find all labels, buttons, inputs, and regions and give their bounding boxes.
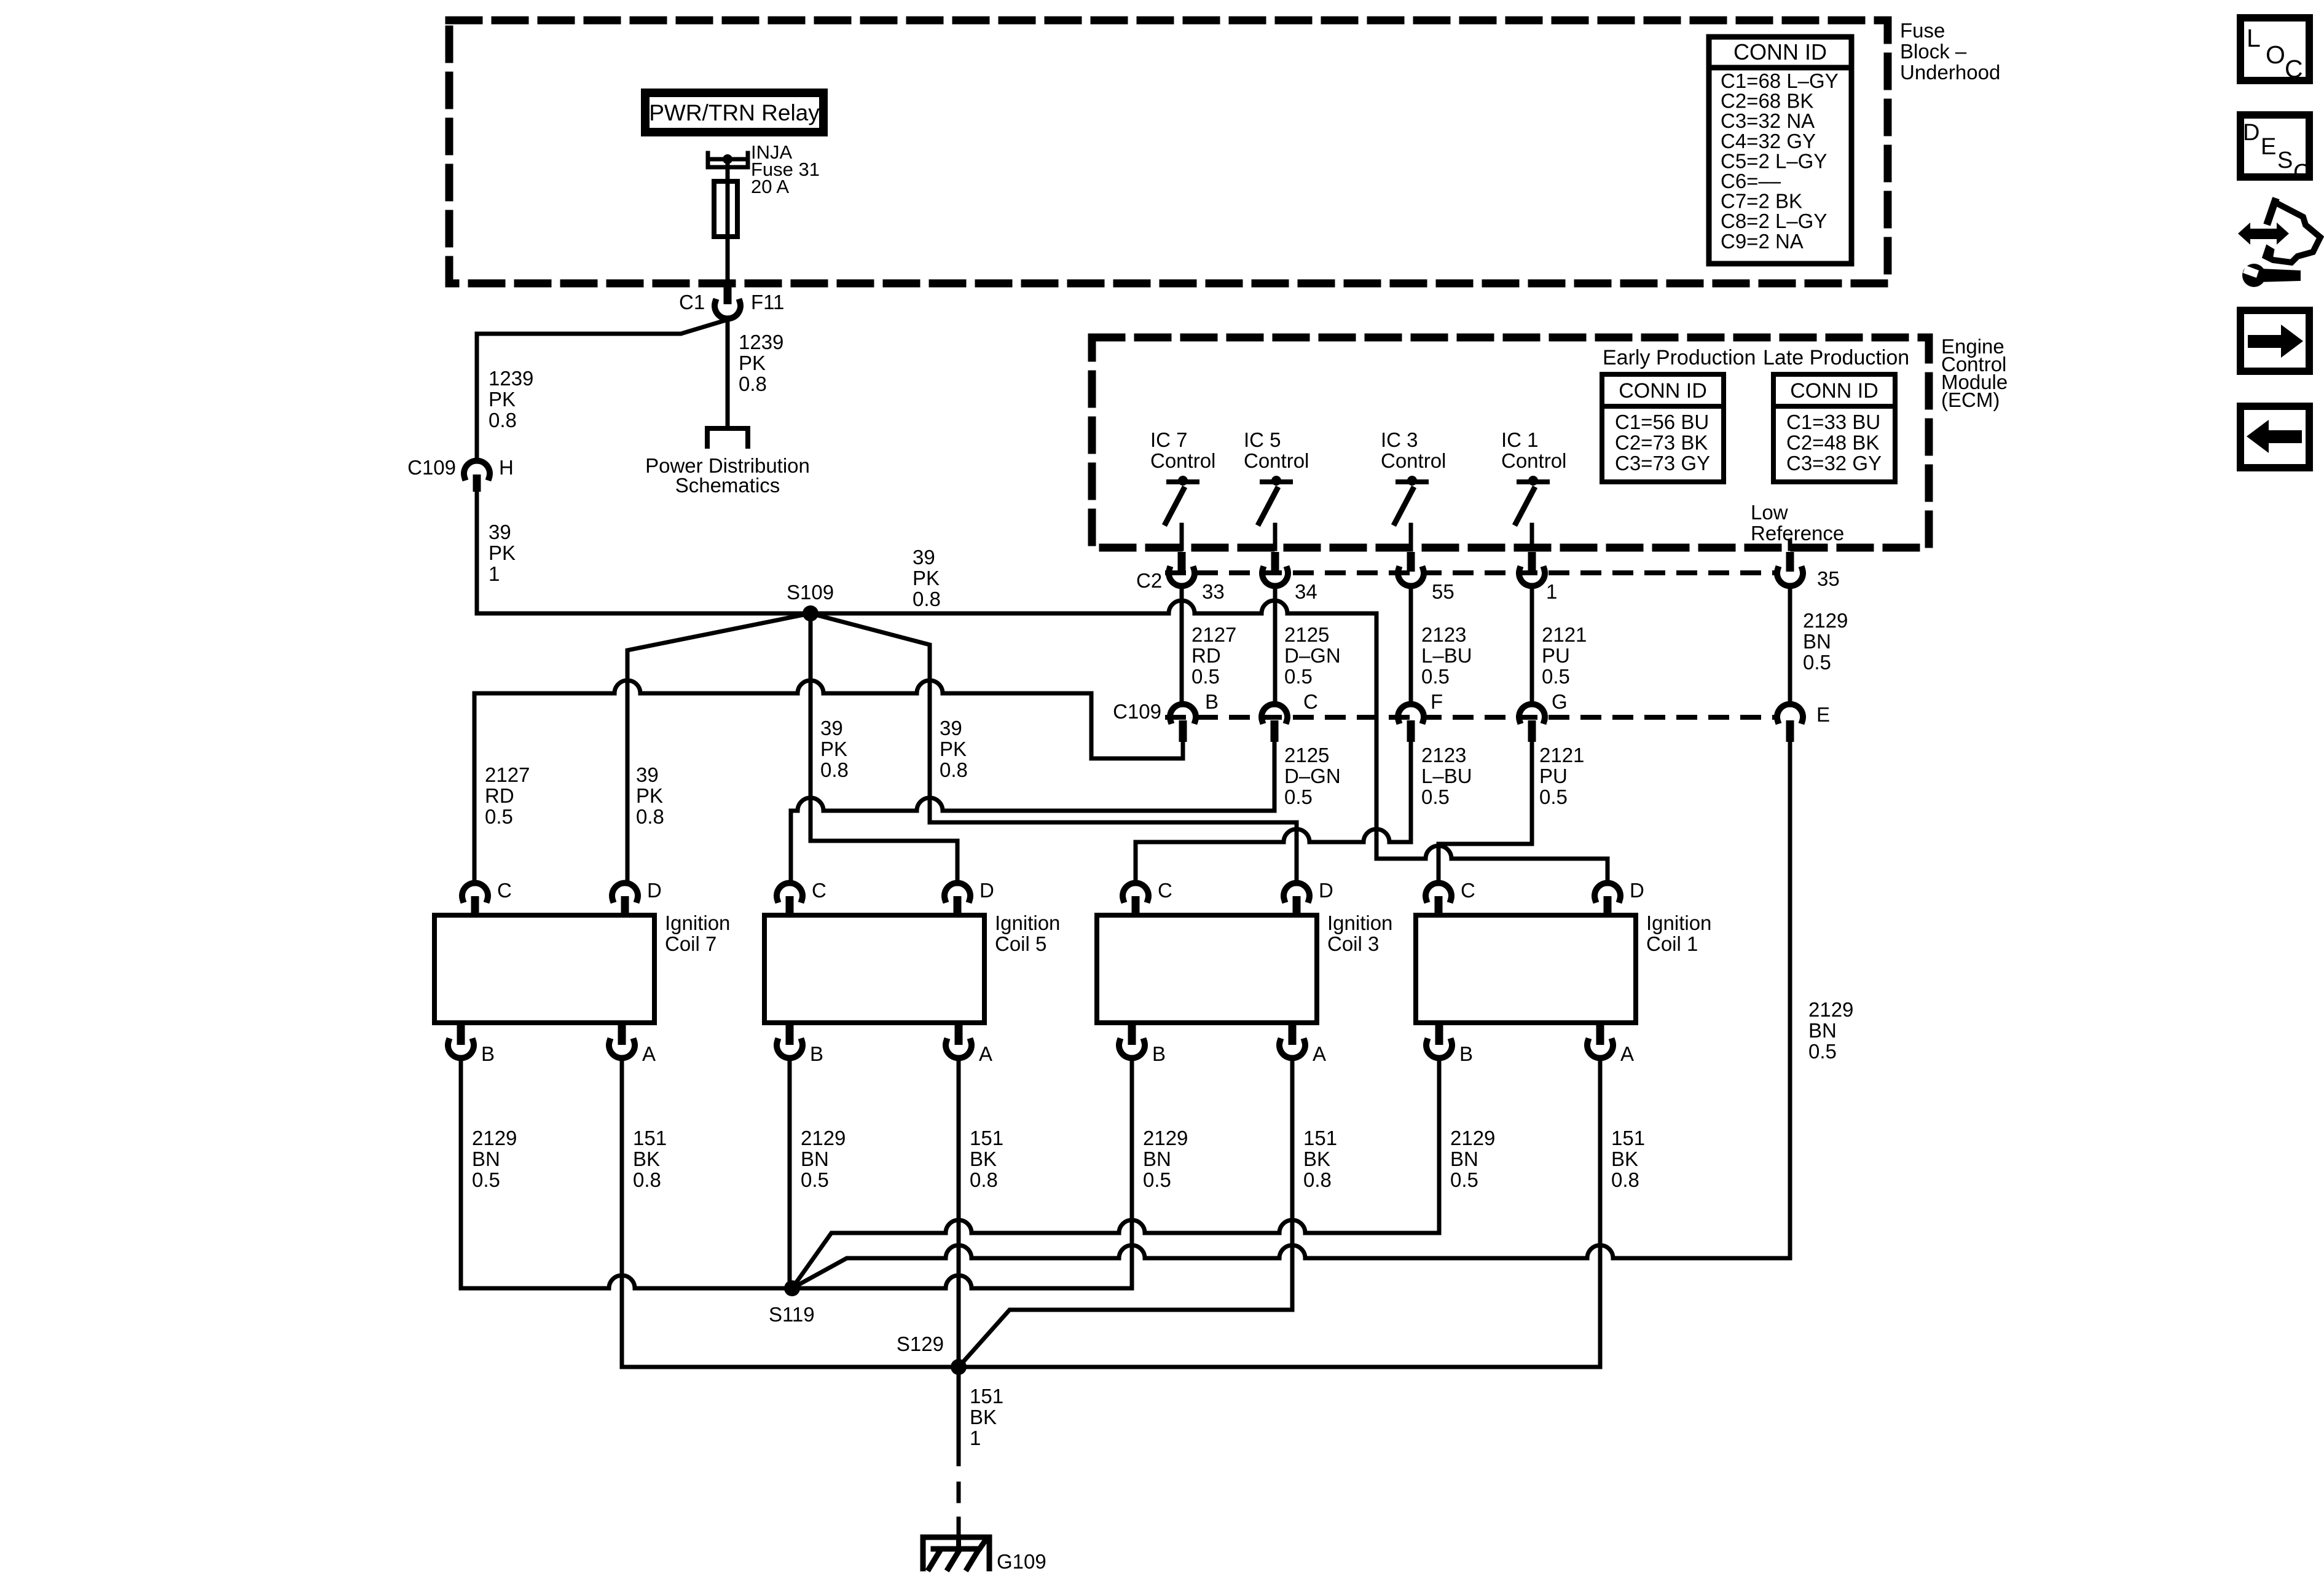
svg-text:C: C [497, 879, 512, 902]
wire 151 BK to ground [957, 1519, 961, 1537]
driver IC 7 switch arm [1166, 489, 1184, 523]
wire 1239 PK from C1 to power distribution [726, 318, 730, 425]
svg-text:B: B [810, 1042, 823, 1065]
connector C2 pin 33 [1178, 552, 1186, 572]
driver IC 3 contact dot [1407, 476, 1417, 486]
svg-text:Late Production: Late Production [1763, 346, 1909, 369]
splice S119 [784, 1280, 800, 1296]
connector C109 pin C [1262, 704, 1287, 721]
svg-text:35: 35 [1817, 567, 1840, 590]
svg-text:0.8: 0.8 [970, 1168, 998, 1191]
svg-text:L–BU: L–BU [1421, 765, 1472, 787]
svg-text:C109: C109 [407, 456, 456, 479]
svg-text:BN: BN [1143, 1148, 1171, 1170]
svg-text:H: H [499, 456, 514, 479]
svg-text:2127: 2127 [485, 763, 530, 786]
svg-text:L–BU: L–BU [1421, 644, 1472, 667]
svg-text:Control: Control [1501, 449, 1566, 472]
wire ECM pin 35 to C109 E [1788, 586, 1792, 704]
wire 2129 BN C109 E down [1788, 742, 1792, 1258]
svg-text:151: 151 [1611, 1127, 1645, 1149]
svg-text:B: B [1205, 690, 1219, 713]
svg-text:0.5: 0.5 [1450, 1168, 1478, 1191]
svg-text:BN: BN [1450, 1148, 1478, 1170]
wire 2129 BN coil5 B to S119 [788, 1058, 792, 1288]
svg-text:BK: BK [1303, 1148, 1330, 1170]
svg-text:C: C [812, 879, 826, 902]
svg-text:BN: BN [472, 1148, 500, 1170]
ground G109 frame [923, 1537, 989, 1569]
svg-text:2121: 2121 [1542, 623, 1587, 646]
svg-text:0.5: 0.5 [472, 1168, 500, 1191]
svg-text:Control: Control [1381, 449, 1446, 472]
icon back arrow [2247, 420, 2302, 453]
relay contact dot [723, 154, 732, 164]
svg-text:C: C [1303, 690, 1318, 713]
driver IC 3 contact bar [1398, 479, 1426, 484]
svg-text:A: A [1620, 1042, 1634, 1065]
wire ECM pin 55 to C109 [1409, 586, 1413, 704]
svg-text:1: 1 [489, 562, 500, 585]
svg-text:E: E [1816, 703, 1830, 726]
coil 7 pin A [618, 1023, 626, 1045]
svg-text:F11: F11 [751, 291, 784, 313]
driver IC 7 contact bar [1169, 479, 1197, 484]
coil 3 pin D [1284, 883, 1309, 900]
wire 2125 D-GN C109 C to coil 5 C [791, 742, 1274, 883]
svg-text:D–GN: D–GN [1284, 644, 1341, 667]
svg-text:C2=73 BK: C2=73 BK [1615, 431, 1708, 454]
svg-text:Coil 7: Coil 7 [665, 932, 716, 955]
svg-text:2129: 2129 [1143, 1127, 1188, 1149]
svg-text:PK: PK [940, 738, 967, 760]
wire 2129 BN coil7 B - S119 - coil3 B [461, 1058, 1132, 1288]
wire 39 PK S109 to coil 7 D [627, 613, 811, 883]
svg-text:D: D [647, 879, 662, 902]
splice S129 [951, 1359, 967, 1375]
svg-text:0.5: 0.5 [1539, 786, 1568, 808]
svg-text:IC 7: IC 7 [1150, 428, 1188, 451]
svg-text:Fuse: Fuse [1900, 19, 1945, 42]
driver IC 1 contact dot [1528, 476, 1538, 486]
wire ECM pin 1 to C109 [1530, 586, 1534, 704]
svg-text:RD: RD [485, 784, 514, 807]
fuse block CONN ID table header separator [1709, 65, 1851, 71]
svg-text:C2: C2 [1136, 569, 1162, 592]
svg-text:PU: PU [1542, 644, 1570, 667]
svg-text:L: L [2247, 24, 2261, 52]
icon wrench head [2242, 264, 2266, 287]
svg-text:0.5: 0.5 [801, 1168, 829, 1191]
connector C109 pin H [464, 461, 490, 478]
svg-text:S129: S129 [897, 1333, 944, 1355]
svg-text:0.8: 0.8 [913, 588, 941, 610]
driver IC 7 contact dot [1178, 476, 1188, 486]
coil 7 pin B [457, 1023, 465, 1045]
svg-text:151: 151 [970, 1127, 1003, 1149]
svg-text:C6=––: C6=–– [1721, 170, 1781, 192]
svg-text:20 A: 20 A [751, 176, 789, 197]
svg-text:2125: 2125 [1284, 623, 1329, 646]
svg-text:33: 33 [1202, 580, 1225, 603]
svg-text:39: 39 [489, 521, 511, 543]
ground G109 hatch 3 [967, 1551, 978, 1569]
svg-text:Coil 3: Coil 3 [1327, 932, 1379, 955]
svg-text:39: 39 [913, 546, 935, 569]
svg-text:39: 39 [820, 717, 843, 739]
wire 2123 L-BU C109 F to coil 3 C [1136, 742, 1411, 883]
svg-text:0.5: 0.5 [485, 805, 513, 828]
svg-text:1239: 1239 [739, 331, 783, 353]
svg-text:C5=2 L–GY: C5=2 L–GY [1721, 149, 1827, 172]
svg-text:CONN ID: CONN ID [1619, 379, 1707, 403]
wire 39 PK S109 to coil 5 D [811, 613, 957, 883]
svg-text:C: C [1461, 879, 1475, 902]
svg-text:Coil 5: Coil 5 [995, 932, 1046, 955]
svg-text:RD: RD [1191, 644, 1221, 667]
svg-text:151: 151 [970, 1385, 1003, 1408]
connector C2 pin 35 [1786, 552, 1794, 572]
fuse F31 INJA 20A body [714, 181, 737, 237]
svg-text:BK: BK [633, 1148, 660, 1170]
icon wrench pointer top stroke [2268, 202, 2275, 221]
svg-text:C8=2 L–GY: C8=2 L–GY [1721, 210, 1827, 232]
svg-text:0.5: 0.5 [1542, 665, 1570, 688]
svg-text:PK: PK [636, 784, 663, 807]
icon wrench notch [2243, 266, 2259, 278]
svg-text:A: A [1313, 1042, 1326, 1065]
icon wrench pointer outline [2266, 203, 2320, 262]
svg-text:2123: 2123 [1421, 623, 1466, 646]
svg-text:PK: PK [820, 738, 847, 760]
svg-text:0.5: 0.5 [1191, 665, 1220, 688]
connector C109 pin G [1519, 704, 1545, 721]
icon back arrow box [2240, 406, 2309, 468]
wire 151 BK dashed segment [957, 1484, 961, 1501]
svg-text:C9=2 NA: C9=2 NA [1721, 230, 1804, 253]
svg-text:2129: 2129 [1808, 998, 1853, 1021]
ECM late production CONN ID table [1773, 374, 1895, 482]
wire IC 1 to ECM pin [1530, 525, 1534, 549]
ECM late table header separator [1773, 404, 1895, 409]
relay contact bar [711, 157, 744, 162]
svg-text:0.5: 0.5 [1808, 1040, 1837, 1063]
wire IC 5 to ECM pin [1273, 525, 1278, 549]
coil 5 pin C [777, 883, 803, 900]
svg-text:C: C [2285, 55, 2303, 83]
coil 5 pin D [944, 883, 970, 900]
svg-text:2129: 2129 [801, 1127, 846, 1149]
svg-text:0.5: 0.5 [1421, 665, 1450, 688]
icon DESC box [2240, 115, 2309, 177]
svg-text:151: 151 [633, 1127, 667, 1149]
icon wrench pointer double arrow [2238, 222, 2289, 245]
svg-text:Low: Low [1751, 501, 1788, 524]
svg-text:Underhood: Underhood [1900, 61, 2000, 84]
svg-text:2127: 2127 [1191, 623, 1236, 646]
icon LOC box [2240, 18, 2309, 81]
fuse block - underhood dashed outline [449, 20, 1888, 283]
svg-text:Schematics: Schematics [675, 474, 780, 497]
svg-text:G109: G109 [997, 1550, 1046, 1573]
coil 7 pin D [612, 883, 638, 900]
connector C2 pin 1 [1528, 552, 1536, 572]
svg-text:O: O [2266, 41, 2285, 69]
svg-text:Ignition: Ignition [1327, 912, 1392, 934]
svg-text:0.8: 0.8 [940, 758, 968, 781]
svg-text:0.5: 0.5 [1803, 651, 1831, 674]
svg-text:S109: S109 [787, 581, 834, 604]
svg-text:55: 55 [1432, 580, 1454, 603]
driver IC 1 switch arm [1516, 489, 1534, 523]
wire 151 BK coil5 A to S129 [957, 1058, 961, 1367]
icon wrench handle [2259, 269, 2301, 282]
connector C109 pin E [1777, 704, 1803, 721]
svg-text:2121: 2121 [1539, 744, 1584, 766]
svg-text:IC 3: IC 3 [1381, 428, 1418, 451]
svg-text:C1=33 BU: C1=33 BU [1786, 411, 1880, 433]
wire IC 7 to ECM pin [1180, 525, 1184, 549]
wire IC 3 to ECM pin [1409, 525, 1413, 549]
svg-text:C3=32 GY: C3=32 GY [1786, 452, 1882, 474]
svg-text:Block –: Block – [1900, 40, 1967, 63]
wire 39 PK S109 to coil 3 D [811, 613, 1297, 883]
svg-text:0.8: 0.8 [1611, 1168, 1639, 1191]
relay K PWR/TRN Relay box [645, 93, 823, 132]
coil 3 pin A [1289, 1023, 1297, 1045]
splice S109 [803, 605, 819, 621]
svg-text:C2=68 BK: C2=68 BK [1721, 90, 1813, 112]
svg-text:PK: PK [913, 567, 940, 589]
svg-text:0.8: 0.8 [489, 409, 517, 431]
fuse block CONN ID table [1709, 37, 1851, 264]
icon forward arrow [2248, 325, 2303, 358]
svg-text:C109: C109 [1113, 700, 1161, 723]
svg-text:PK: PK [739, 352, 766, 374]
svg-text:0.5: 0.5 [1421, 786, 1450, 808]
svg-text:0.8: 0.8 [636, 805, 664, 828]
svg-text:2129: 2129 [472, 1127, 517, 1149]
ground G109 hatch 1 [929, 1551, 940, 1569]
coil 5 pin A [955, 1023, 963, 1045]
svg-text:C: C [1158, 879, 1172, 902]
svg-text:PK: PK [489, 541, 516, 564]
connector C2 pin 34 [1271, 552, 1279, 572]
svg-text:F: F [1431, 690, 1443, 713]
svg-text:CONN ID: CONN ID [1790, 379, 1878, 403]
coil 1 pin C [1426, 883, 1451, 900]
connector row C109 dashed line [1168, 715, 1775, 720]
svg-text:C: C [2293, 160, 2310, 186]
wire relay to fuse to C1 [726, 163, 730, 283]
svg-text:1: 1 [1546, 580, 1557, 603]
coil 3 pin C [1123, 883, 1148, 900]
ignition coil 5 box [764, 915, 984, 1023]
svg-text:2129: 2129 [1450, 1127, 1495, 1149]
ground G109 hatch bar [933, 1541, 985, 1549]
wire 151 BK S129 to G109 [957, 1367, 961, 1464]
svg-text:Ignition: Ignition [995, 912, 1060, 934]
coil 3 pin B [1128, 1023, 1136, 1045]
driver IC 1 contact bar [1519, 479, 1547, 484]
svg-text:BN: BN [1803, 630, 1831, 653]
svg-text:IC 1: IC 1 [1501, 428, 1539, 451]
svg-text:2125: 2125 [1284, 744, 1329, 766]
svg-text:Control: Control [1150, 449, 1215, 472]
svg-text:E: E [2261, 134, 2276, 160]
svg-text:BK: BK [970, 1406, 997, 1428]
svg-text:S: S [2277, 148, 2293, 173]
ignition coil 7 box [434, 915, 654, 1023]
wire 39 PK bus S109 to ECM area and coil 1 D [477, 600, 1608, 883]
wire 2121 PU C109 G to coil 1 C [1439, 742, 1532, 883]
svg-text:S119: S119 [769, 1303, 815, 1326]
wire 2127 RD C109 B to coil 7 C [474, 680, 1183, 883]
svg-text:D–GN: D–GN [1284, 765, 1341, 787]
svg-text:39: 39 [940, 717, 962, 739]
svg-text:1239: 1239 [489, 367, 533, 390]
coil 1 pin A [1596, 1023, 1604, 1045]
ground G109 hatch 2 [948, 1551, 959, 1569]
svg-text:PU: PU [1539, 765, 1568, 787]
svg-text:C4=32 GY: C4=32 GY [1721, 130, 1816, 152]
svg-text:2123: 2123 [1421, 744, 1466, 766]
wire 2129 BN S119 to coil 1 B [792, 1058, 1439, 1288]
coil 7 pin C [462, 883, 488, 900]
svg-text:A: A [642, 1042, 656, 1065]
svg-text:0.5: 0.5 [1284, 665, 1313, 688]
svg-text:0.8: 0.8 [820, 758, 849, 781]
svg-text:D: D [2243, 120, 2259, 146]
svg-text:0.8: 0.8 [633, 1168, 661, 1191]
driver IC 5 contact dot [1271, 476, 1281, 486]
coil 1 pin D [1595, 883, 1620, 900]
wire low reference to ECM pin 35 [1788, 541, 1792, 549]
ground G109 stub [956, 1537, 961, 1548]
ignition coil 1 box [1416, 915, 1636, 1023]
svg-text:0.5: 0.5 [1143, 1168, 1171, 1191]
svg-text:BN: BN [801, 1148, 829, 1170]
svg-text:Coil 1: Coil 1 [1646, 932, 1698, 955]
svg-text:Early Production: Early Production [1603, 346, 1756, 369]
svg-text:Reference: Reference [1751, 522, 1844, 545]
svg-text:Ignition: Ignition [665, 912, 730, 934]
svg-text:C1=68 L–GY: C1=68 L–GY [1721, 69, 1839, 92]
svg-text:D: D [979, 879, 994, 902]
svg-text:2129: 2129 [1803, 609, 1848, 632]
connector C1 pin F11 [724, 285, 732, 304]
svg-text:151: 151 [1303, 1127, 1337, 1149]
connector C2 pin 55 [1407, 552, 1415, 572]
wire ECM pin 33 to C109 [1180, 586, 1184, 704]
wire 151 BK coil3 A to S129 [959, 1058, 1292, 1367]
svg-text:34: 34 [1295, 580, 1317, 603]
ECM early table header separator [1602, 404, 1724, 409]
icon forward arrow box [2240, 310, 2309, 371]
svg-text:C3=32 NA: C3=32 NA [1721, 109, 1815, 132]
svg-text:BN: BN [1808, 1019, 1837, 1042]
svg-text:D: D [1630, 879, 1644, 902]
svg-text:PWR/TRN Relay: PWR/TRN Relay [649, 100, 820, 125]
svg-text:BK: BK [1611, 1148, 1638, 1170]
svg-text:IC 5: IC 5 [1244, 428, 1281, 451]
connector C109 pin B [1170, 704, 1196, 721]
svg-text:C7=2 BK: C7=2 BK [1721, 190, 1802, 213]
driver IC 3 switch arm [1395, 489, 1413, 523]
connector C109 pin F [1398, 704, 1424, 721]
relay contact bracket [708, 153, 748, 167]
svg-text:D: D [1319, 879, 1333, 902]
svg-text:0.8: 0.8 [739, 372, 767, 395]
svg-text:C3=73 GY: C3=73 GY [1615, 452, 1710, 474]
engine control module dashed outline [1092, 337, 1929, 548]
svg-text:0.8: 0.8 [1303, 1168, 1332, 1191]
driver IC 5 contact bar [1262, 479, 1290, 484]
svg-text:C2=48 BK: C2=48 BK [1786, 431, 1879, 454]
connector row C2 dashed line [1168, 570, 1775, 575]
ECM early production CONN ID table [1602, 374, 1724, 482]
svg-text:CONN ID: CONN ID [1733, 39, 1827, 65]
svg-text:B: B [481, 1042, 495, 1065]
svg-text:1: 1 [970, 1427, 981, 1449]
wire 39 PK from C109 H to S109 [475, 492, 479, 613]
svg-text:B: B [1459, 1042, 1473, 1065]
svg-text:A: A [979, 1042, 992, 1065]
wire 151 BK coil7 A - S129 bus - coil1 A [622, 1058, 1600, 1367]
svg-text:C1: C1 [679, 291, 705, 313]
wire branch C1 to C109 H [477, 320, 726, 461]
wire inside fuse [726, 181, 730, 237]
svg-text:(ECM): (ECM) [1941, 388, 2000, 411]
svg-text:G: G [1552, 690, 1568, 713]
svg-text:BK: BK [970, 1148, 997, 1170]
coil 1 pin B [1435, 1023, 1443, 1045]
svg-text:PK: PK [489, 388, 516, 411]
coil 5 pin B [786, 1023, 794, 1045]
svg-text:Ignition: Ignition [1646, 912, 1711, 934]
driver IC 5 switch arm [1259, 489, 1277, 523]
svg-text:0.5: 0.5 [1284, 786, 1313, 808]
wire 2129 BN S119 to C109 E [792, 1245, 1790, 1288]
wire ECM pin 34 to C109 [1273, 586, 1278, 704]
svg-text:C1=56 BU: C1=56 BU [1615, 411, 1709, 433]
svg-text:39: 39 [636, 763, 659, 786]
svg-text:Control: Control [1244, 449, 1309, 472]
ignition coil 3 box [1097, 915, 1317, 1023]
svg-text:B: B [1152, 1042, 1166, 1065]
off-page arrow power distribution [707, 428, 748, 446]
